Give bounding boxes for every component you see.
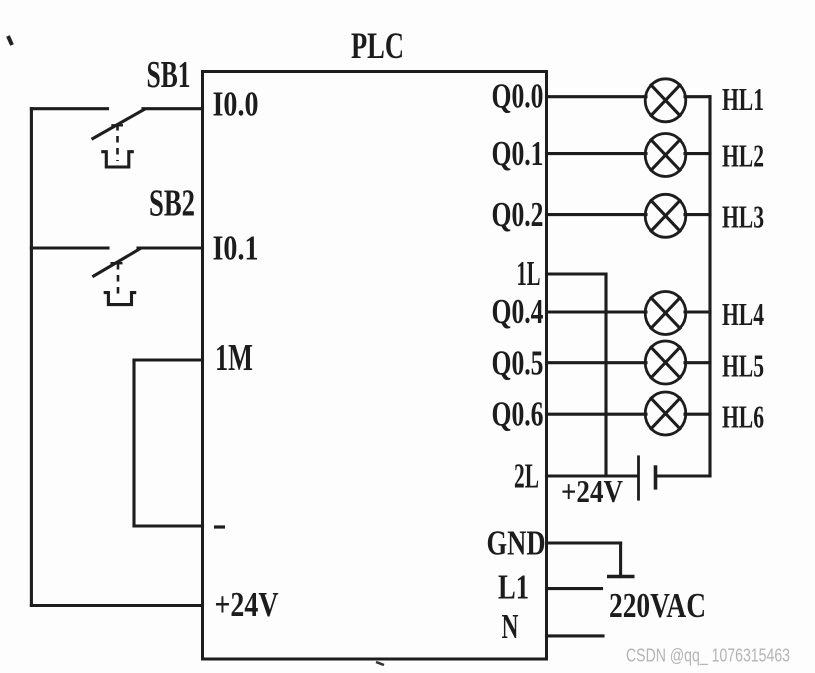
svg-text:HL4: HL4 [722,296,764,332]
wire lamp HL1 to bus [685,95,710,98]
svg-text:N: N [502,607,519,646]
wire Q0.4 to lamp [547,310,647,313]
label HL2 [722,138,764,174]
wire I0.0 left segment [31,107,107,110]
svg-text:HL5: HL5 [722,348,764,384]
svg-text:HL6: HL6 [722,399,764,435]
wire lamp HL6 to bus [685,413,710,416]
lamp HL2 [645,134,686,177]
wire lamp HL5 to bus [685,361,710,364]
wire 1M horizontal [134,358,203,361]
pin label N [502,607,519,646]
pin label Q0.0 [492,77,544,116]
label PLC [351,26,404,67]
svg-text:Q0.2: Q0.2 [492,195,544,234]
lamp HL4 [645,292,686,335]
wire I0.1 left segment [31,246,108,249]
pin label 1M [215,337,253,379]
wire left bus [30,109,33,606]
svg-text:PLC: PLC [351,26,404,67]
wire Q0.1 to lamp [547,152,647,155]
pushbutton SB1 [93,110,144,168]
svg-text:Q0.4: Q0.4 [492,292,544,331]
wire battery to bus [657,474,710,477]
svg-text:CSDN @qq_ 1076315463: CSDN @qq_ 1076315463 [626,646,790,667]
wire Q0.6 to lamp [547,413,647,416]
ground [607,575,635,578]
svg-text:+24V: +24V [215,585,279,624]
wire L1 [547,587,602,590]
svg-text:1M: 1M [215,337,253,379]
pin label +24V [215,585,279,624]
pin label 1L [517,254,541,293]
pin label Q0.2 [492,195,544,234]
pin label 2L [514,457,539,496]
svg-text:+24V: +24V [561,473,623,509]
svg-text:SB1: SB1 [147,54,191,96]
lamp HL3 [645,194,686,237]
svg-text:I0.0: I0.0 [213,85,259,124]
wire 1M to minus vertical [132,360,135,526]
lamp HL5 [645,341,686,384]
svg-text:Q0.1: Q0.1 [492,134,544,173]
pushbutton SB2 [94,249,140,305]
label HL6 [722,399,764,435]
wire 2L to battery [547,474,638,477]
label HL4 [722,296,764,332]
svg-text:220VAC: 220VAC [609,586,706,625]
watermark [626,646,790,667]
svg-text:Q0.6: Q0.6 [492,395,544,434]
label +24V battery [561,473,623,509]
PLC block U1 [203,72,547,660]
svg-text:L1: L1 [498,568,529,607]
label SB1 [147,54,191,96]
wire Q0.2 to lamp [547,213,647,216]
wire lamp HL3 to bus [685,213,710,216]
wire 1L vertical [604,274,607,476]
wire minus horizontal [134,524,203,527]
wire Q0.0 to lamp [547,95,647,98]
wire lamp HL4 to bus [685,310,710,313]
label HL3 [722,199,764,235]
svg-text:1L: 1L [517,254,541,293]
pin label L1 [498,568,529,607]
pin label I0.1 [213,229,259,268]
pin label Q0.1 [492,134,544,173]
label SB2 [149,183,195,225]
lamp HL1 [645,79,686,122]
battery BT1 [639,455,656,500]
pin label Q0.4 [492,292,544,331]
svg-text:Q0.5: Q0.5 [492,344,544,383]
pin label GND [487,524,546,563]
svg-text:SB2: SB2 [149,183,195,225]
wire +24V horizontal [31,604,202,607]
svg-text:Q0.0: Q0.0 [492,77,544,116]
wire 1L horizontal [547,272,607,275]
wire GND horizontal [547,541,621,544]
wire right bus [708,97,711,476]
svg-text:HL2: HL2 [722,138,764,174]
label HL1 [722,81,764,117]
svg-text:GND: GND [487,524,546,563]
lamp HL6 [645,392,686,435]
svg-text:HL3: HL3 [722,199,764,235]
wire I0.0 right segment [143,107,203,110]
label HL5 [722,348,764,384]
wire GND vertical [619,543,622,577]
pin label Q0.5 [492,344,544,383]
svg-text:I0.1: I0.1 [213,229,259,268]
svg-text:2L: 2L [514,457,539,496]
wire I0.1 right segment [138,246,203,249]
svg-text:HL1: HL1 [722,81,764,117]
wire lamp HL2 to bus [685,152,710,155]
label 220VAC [609,586,706,625]
wire N [547,634,604,637]
pin label Q0.6 [492,395,544,434]
pin label I0.0 [213,85,259,124]
wire Q0.5 to lamp [547,361,647,364]
pin label minus [214,525,225,528]
